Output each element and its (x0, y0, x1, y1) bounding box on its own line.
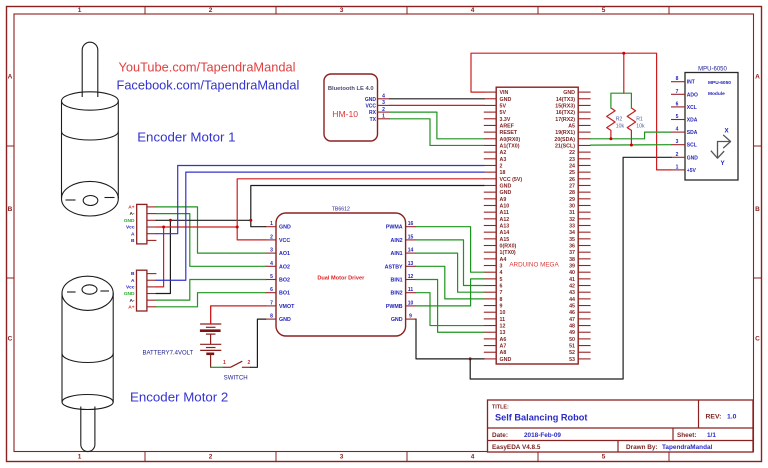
U2 left pin 8 (484, 297, 503, 303)
svg-text:45: 45 (569, 304, 575, 310)
svg-text:A5: A5 (568, 123, 575, 129)
svg-text:5: 5 (602, 454, 606, 461)
U2 left pin 3 (484, 264, 503, 270)
svg-text:3: 3 (340, 7, 344, 14)
svg-text:39: 39 (569, 264, 575, 270)
svg-text:C: C (8, 336, 13, 343)
svg-text:BIN1: BIN1 (391, 278, 403, 284)
U2 left pin VCC (5V) (484, 177, 523, 183)
svg-text:GND: GND (391, 317, 403, 323)
U2 left pin GND (484, 190, 512, 196)
wire U4 PWMA to U2 pin 4 (green) (416, 227, 484, 272)
title block frame (488, 400, 754, 452)
svg-text:A: A (755, 74, 760, 81)
svg-text:9: 9 (500, 304, 503, 310)
svg-text:9: 9 (409, 314, 412, 320)
U2 left pin 18 (484, 170, 506, 176)
U2 left pin 2 (484, 163, 503, 169)
wire U4 AIN2 to U2 pin 6 (green) (416, 240, 484, 286)
svg-text:51: 51 (569, 344, 575, 350)
U2 left pin GND (484, 183, 512, 189)
U4 pin 3 (AO1) (266, 248, 290, 258)
U2 right pin 47 (569, 317, 591, 323)
svg-text:Date:: Date: (492, 432, 508, 439)
svg-text:A: A (131, 278, 135, 284)
TB6612 module U4 body (276, 213, 406, 336)
svg-text:8: 8 (270, 314, 273, 320)
svg-text:ADO: ADO (687, 92, 698, 98)
U2 right pin 53 (569, 357, 591, 363)
svg-text:27: 27 (569, 183, 575, 189)
svg-text:Drawn By:: Drawn By: (626, 444, 658, 451)
wire J2 Vcc branch (red) (156, 227, 163, 287)
battery BT1 7.4V (200, 306, 221, 367)
U2 left pin 5 (484, 277, 503, 283)
U2 right pin 39 (569, 264, 591, 270)
svg-text:Encoder Motor 1: Encoder Motor 1 (137, 130, 235, 145)
svg-text:2: 2 (676, 152, 679, 158)
U4 pin 4 (AO2) (266, 261, 290, 271)
svg-text:41: 41 (569, 277, 575, 283)
svg-text:A6: A6 (500, 337, 507, 343)
svg-text:ARDUINO MEGA: ARDUINO MEGA (509, 261, 559, 268)
svg-text:6: 6 (270, 287, 273, 293)
svg-text:10k: 10k (636, 123, 645, 129)
svg-text:A1(TX0): A1(TX0) (500, 143, 520, 149)
svg-text:4: 4 (270, 261, 273, 267)
svg-text:2018-Feb-09: 2018-Feb-09 (524, 432, 561, 439)
U3 pin 3 (SCL) (671, 139, 697, 149)
Arduino Mega U2 body (496, 87, 578, 364)
svg-text:XDA: XDA (687, 118, 698, 124)
svg-text:2: 2 (270, 234, 273, 240)
svg-text:3: 3 (500, 264, 503, 270)
wire U1 GND to U2 GND (black) (390, 98, 484, 100)
wire U1 VCC to U2 5V (red) (390, 104, 484, 106)
svg-text:2: 2 (500, 163, 503, 169)
U2 right pin A5 (568, 123, 590, 129)
svg-text:GND: GND (500, 183, 512, 189)
svg-text:34: 34 (569, 230, 575, 236)
svg-text:MPU-6050: MPU-6050 (698, 66, 727, 72)
svg-text:1: 1 (382, 114, 385, 120)
title block Drawn By: (626, 444, 713, 451)
U2 right pin 27 (569, 183, 591, 189)
U4 pin 11 (BIN2) (391, 287, 416, 297)
U2 left pin A7 (484, 344, 507, 350)
U2 left pin A1(TX0) (484, 143, 520, 149)
svg-text:B: B (755, 206, 760, 213)
svg-text:15(RX3): 15(RX3) (555, 103, 575, 109)
svg-text:GND: GND (124, 218, 135, 224)
svg-text:10: 10 (500, 310, 506, 316)
U2 right pin 38 (569, 257, 591, 263)
svg-text:GND: GND (500, 357, 512, 363)
connector J1 body (137, 204, 147, 244)
svg-text:2: 2 (247, 360, 250, 366)
svg-text:AREF: AREF (500, 123, 515, 129)
svg-text:A-: A- (129, 211, 134, 217)
svg-text:A9: A9 (500, 197, 507, 203)
svg-text:A4: A4 (500, 257, 507, 263)
U2 right pin 49 (569, 330, 591, 336)
J2 pin 2 (A) (131, 278, 156, 284)
svg-text:6: 6 (676, 101, 679, 107)
U2 right pin 20(SDA) (554, 137, 590, 143)
MPU-6050 module U3 body (685, 73, 738, 181)
svg-text:8: 8 (676, 76, 679, 82)
svg-text:26: 26 (569, 177, 575, 183)
svg-text:12: 12 (500, 324, 506, 330)
svg-text:1(TX0): 1(TX0) (500, 250, 516, 256)
U2 left pin A11 (484, 210, 509, 216)
U2 left pin 4 (484, 270, 503, 276)
svg-text:28: 28 (569, 190, 575, 196)
svg-text:BATTERY7.4VOLT: BATTERY7.4VOLT (143, 350, 194, 356)
wire Vcc bus vertical to U2 VCC(5V) and U4 VCC (red) (237, 179, 484, 240)
svg-text:GND: GND (279, 317, 291, 323)
U2 right pin 35 (569, 237, 591, 243)
U2 right pin 15(RX3) (555, 103, 590, 109)
svg-text:53: 53 (569, 357, 575, 363)
svg-text:RX: RX (369, 110, 377, 116)
wire GND bus vertical to U2 GND and U4 GND (black) (251, 185, 484, 226)
U2 right pin 44 (569, 297, 591, 303)
wire U4 GND pin9 to U2 GND (black) (416, 319, 484, 359)
svg-text:AO2: AO2 (279, 264, 290, 270)
svg-text:A8: A8 (500, 350, 507, 356)
J2 pin 3 (Vcc) (126, 284, 156, 290)
svg-text:R1: R1 (636, 117, 643, 123)
U2 right pin 50 (569, 337, 591, 343)
U2 right pin 37 (569, 250, 591, 256)
svg-text:3: 3 (340, 454, 344, 461)
svg-text:32: 32 (569, 217, 575, 223)
U2 right pin 32 (569, 217, 591, 223)
svg-text:22: 22 (569, 150, 575, 156)
wire U2 21(SCL) to U3 SCL (green) (591, 144, 671, 146)
J2 pin 1 (B) (131, 271, 156, 277)
svg-text:42: 42 (569, 284, 575, 290)
U3 axis glyph X/Y (711, 128, 730, 168)
svg-text:Vcc: Vcc (126, 225, 135, 231)
wire U4 ASTBY to U2 pin 8 (green) (416, 266, 484, 299)
svg-text:MPU-6050: MPU-6050 (708, 80, 731, 86)
svg-text:A: A (131, 231, 135, 237)
U2 left pin 10 (484, 310, 506, 316)
svg-text:VCC: VCC (365, 103, 376, 109)
U3 pin 1 (+5V) (671, 164, 697, 174)
U1 pin 1 (TX) (370, 114, 390, 123)
svg-text:4: 4 (471, 454, 475, 461)
U2 right pin 22 (569, 150, 591, 156)
J1 pin 6 (B) (131, 238, 156, 244)
svg-text:R2: R2 (616, 117, 623, 123)
svg-text:46: 46 (569, 310, 575, 316)
svg-text:16(TX2): 16(TX2) (556, 110, 575, 116)
encoder motor 2 drawing (62, 276, 113, 451)
svg-text:PWMA: PWMA (386, 225, 403, 231)
U2 right pin GND (563, 90, 590, 96)
svg-text:B: B (131, 238, 135, 244)
U2 right pin 41 (569, 277, 591, 283)
junction SCL at R1 (630, 144, 633, 147)
wire U4 AIN1 to U2 pin 7 (green) (416, 253, 484, 292)
U2 right pin 46 (569, 310, 591, 316)
wire J1 A+ to U4 AO1 (green) (156, 207, 265, 253)
svg-text:49: 49 (569, 330, 575, 336)
junction GND at bus (249, 219, 252, 222)
svg-text:REV:: REV: (706, 414, 722, 421)
svg-text:Encoder Motor 2: Encoder Motor 2 (130, 390, 228, 405)
svg-text:31: 31 (569, 210, 575, 216)
svg-text:5: 5 (676, 114, 679, 120)
svg-text:11: 11 (500, 317, 506, 323)
U2 left pin AREF (484, 123, 515, 129)
wire U4 PWMB to U2 pin 5 (green) (416, 279, 484, 306)
svg-text:A11: A11 (500, 210, 509, 216)
U2 left pin A0(RX0) (484, 137, 521, 143)
U2 left pin RESET (484, 130, 518, 136)
svg-text:INT: INT (687, 80, 695, 86)
J1 pin 1 (A+) (128, 205, 156, 211)
U2 right pin 16(TX2) (556, 110, 591, 116)
svg-text:33: 33 (569, 224, 575, 230)
svg-text:21(SCL): 21(SCL) (555, 143, 575, 149)
svg-text:14(TX3): 14(TX3) (556, 97, 575, 103)
svg-text:TB6612: TB6612 (332, 207, 350, 213)
svg-text:24: 24 (569, 163, 575, 169)
junction Vcc at bus (236, 226, 239, 229)
svg-text:B: B (131, 271, 135, 277)
svg-text:ASTBY: ASTBY (385, 264, 403, 270)
U4 pin 5 (BO2) (266, 274, 290, 284)
svg-text:A0(RX0): A0(RX0) (500, 137, 521, 143)
U2 left pin 7 (484, 290, 503, 296)
svg-text:4: 4 (676, 127, 679, 133)
svg-text:13: 13 (500, 330, 506, 336)
svg-text:B: B (8, 206, 13, 213)
wire U2 VIN to U3 +5V (red) (471, 53, 671, 170)
U2 left pin 13 (484, 330, 506, 336)
svg-text:6: 6 (500, 284, 503, 290)
U3 pin 8 (INT) (671, 76, 695, 86)
svg-text:Module: Module (708, 91, 725, 97)
svg-text:SCL: SCL (687, 143, 697, 149)
U4 pin 12 (BIN1) (391, 274, 416, 284)
svg-text:4: 4 (382, 94, 385, 100)
svg-text:16: 16 (408, 221, 414, 227)
HM-10 module U1 body (324, 74, 378, 141)
svg-text:5: 5 (500, 277, 503, 283)
svg-text:2: 2 (382, 107, 385, 113)
wire battery - to switch pin 1 (green) (211, 366, 223, 368)
wire J2 A- to U4 BO2 (green) (156, 280, 265, 301)
svg-text:3.3V: 3.3V (500, 117, 511, 123)
svg-text:10: 10 (408, 300, 414, 306)
svg-text:AO1: AO1 (279, 251, 290, 257)
U2 right pin 48 (569, 324, 591, 330)
U3 pin 2 (GND) (671, 152, 698, 162)
svg-text:VCC (5V): VCC (5V) (500, 177, 523, 183)
svg-text:EasyEDA V4.8.5: EasyEDA V4.8.5 (492, 444, 541, 451)
wire U1 RX to U2 A0(RX0) (green) (390, 112, 484, 139)
U3 pin 6 (XCL) (671, 101, 697, 111)
svg-text:GND: GND (500, 190, 512, 196)
svg-text:HM-10: HM-10 (332, 109, 358, 119)
U3 pin 4 (SDA) (671, 127, 698, 137)
encoder motor 1 drawing (62, 42, 119, 216)
svg-text:4: 4 (471, 7, 475, 14)
svg-text:A14: A14 (500, 230, 510, 236)
svg-text:1.0: 1.0 (727, 414, 737, 421)
U4 pin 6 (BO1) (266, 287, 290, 297)
svg-text:Facebook.com/TapendraMandal: Facebook.com/TapendraMandal (117, 78, 300, 93)
svg-text:RESET: RESET (500, 130, 518, 136)
wire GND bus J1 (black) (156, 219, 250, 221)
U4 pin 14 (AIN1) (391, 248, 416, 258)
svg-text:3: 3 (382, 100, 385, 106)
U4 pin 8 (GND) (266, 314, 291, 324)
U2 left pin A9 (484, 197, 507, 203)
svg-text:GND: GND (124, 291, 135, 297)
U2 right pin 31 (569, 210, 591, 216)
wire GND to U3 GND (black) (470, 157, 671, 379)
wire U4 BIN2 to U2 pin 12 (green) (416, 293, 484, 326)
J2 pin 5 (A-) (129, 298, 156, 304)
svg-text:A+: A+ (128, 304, 134, 310)
svg-text:1: 1 (270, 221, 273, 227)
wire U2 20(SDA) to U3 SDA (green) (591, 132, 671, 139)
svg-text:VCC: VCC (279, 238, 290, 244)
svg-text:Sheet:: Sheet: (677, 432, 697, 439)
U1 pin 2 (RX) (369, 107, 390, 116)
U2 left pin 5V (484, 110, 507, 116)
U2 left pin 0(RX0) (484, 244, 517, 250)
svg-text:7: 7 (676, 89, 679, 95)
junction +5V (622, 52, 625, 55)
U2 right pin 45 (569, 304, 591, 310)
svg-text:14: 14 (408, 248, 414, 254)
J1 pin 3 (GND) (124, 218, 157, 224)
svg-text:A10: A10 (500, 203, 510, 209)
svg-text:2: 2 (209, 454, 213, 461)
svg-text:AIN1: AIN1 (391, 251, 403, 257)
svg-text:30: 30 (569, 203, 575, 209)
svg-text:29: 29 (569, 197, 575, 203)
svg-text:25: 25 (569, 170, 575, 176)
U2 left pin A2 (484, 150, 507, 156)
svg-text:XCL: XCL (687, 105, 697, 111)
svg-text:23: 23 (569, 157, 575, 163)
svg-text:TITLE:: TITLE: (492, 405, 509, 411)
svg-text:Dual Motor Driver: Dual Motor Driver (317, 275, 365, 281)
U2 left pin A10 (484, 203, 509, 209)
svg-text:13: 13 (408, 261, 414, 267)
U2 left pin 3.3V (484, 117, 511, 123)
svg-text:Self Balancing Robot: Self Balancing Robot (495, 413, 587, 423)
wire J1 A to U2 pin 2 (blue) (156, 165, 483, 233)
svg-text:PWMB: PWMB (386, 304, 403, 310)
J1 pin 2 (A-) (129, 211, 156, 217)
U4 pin 15 (AIN2) (391, 234, 416, 244)
U4 pin 16 (PWMA) (386, 221, 416, 231)
svg-text:TapendraMandal: TapendraMandal (662, 444, 713, 451)
svg-text:A13: A13 (500, 224, 510, 230)
svg-text:5V: 5V (500, 110, 507, 116)
svg-text:1: 1 (223, 360, 226, 366)
svg-text:38: 38 (569, 257, 575, 263)
wire Vcc bus J1 (red) (156, 226, 237, 228)
svg-text:8: 8 (500, 297, 503, 303)
svg-text:AIN2: AIN2 (391, 238, 403, 244)
svg-text:GND: GND (687, 155, 699, 161)
U2 right pin 28 (569, 190, 591, 196)
svg-text:35: 35 (569, 237, 575, 243)
title block Date: (492, 432, 561, 439)
wire J2 GND branch (black) (156, 220, 170, 293)
svg-text:40: 40 (569, 270, 575, 276)
svg-text:Vcc: Vcc (126, 284, 135, 290)
wire +5V branch to resistors (red) (623, 53, 625, 93)
U4 pin 10 (PWMB) (386, 300, 416, 310)
wire J2 A to U2 pin 18 (blue) (156, 172, 483, 280)
svg-text:10k: 10k (616, 123, 625, 129)
U2 right pin 36 (569, 244, 591, 250)
svg-text:12: 12 (408, 274, 414, 280)
U2 left pin 11 (484, 317, 505, 323)
U2 right pin 24 (569, 163, 591, 169)
J2 pin 6 (A+) (128, 304, 156, 310)
wire U4 BIN1 to U2 pin 13 (green) (416, 280, 484, 333)
svg-text:BIN2: BIN2 (391, 291, 403, 297)
U3 pin 5 (XDA) (671, 114, 698, 124)
wire U4 VMOT to battery + (red) (211, 306, 266, 324)
U2 left pin 6 (484, 284, 503, 290)
svg-text:5V: 5V (500, 103, 507, 109)
svg-text:A-: A- (129, 298, 134, 304)
svg-text:37: 37 (569, 250, 575, 256)
svg-text:A15: A15 (500, 237, 510, 243)
svg-text:A12: A12 (500, 217, 510, 223)
U4 pin 2 (VCC) (266, 234, 291, 244)
junction SDA at R2 (609, 137, 612, 140)
U2 left pin A13 (484, 224, 509, 230)
svg-text:5: 5 (602, 7, 606, 14)
svg-text:TX: TX (370, 117, 377, 123)
U2 right pin 51 (569, 344, 591, 350)
title block REV: (706, 414, 737, 421)
U2 left pin 5V (484, 103, 507, 109)
U4 pin 9 (GND) (391, 314, 416, 324)
svg-text:1: 1 (676, 164, 679, 170)
U2 right pin 30 (569, 203, 591, 209)
U2 right pin 34 (569, 230, 591, 236)
svg-text:48: 48 (569, 324, 575, 330)
wire J2 A+ to U4 BO1 (green) (156, 293, 265, 307)
U2 right pin 19(RX1) (555, 130, 590, 136)
J1 pin 5 (A) (131, 231, 156, 237)
U2 right pin 26 (569, 177, 591, 183)
U2 left pin 1(TX0) (484, 250, 516, 256)
svg-text:19(RX1): 19(RX1) (555, 130, 575, 136)
svg-text:7: 7 (500, 290, 503, 296)
svg-text:17(RX2): 17(RX2) (555, 117, 575, 123)
U2 right pin 23 (569, 157, 591, 163)
svg-text:A7: A7 (500, 344, 507, 350)
junction GND bottom (469, 357, 472, 360)
svg-text:GND: GND (279, 225, 291, 231)
